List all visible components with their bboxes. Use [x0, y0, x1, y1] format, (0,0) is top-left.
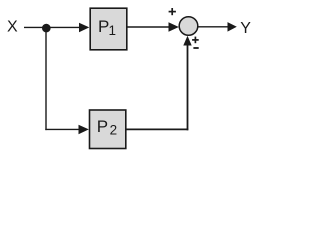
- wire up to summer: [187, 43, 189, 130]
- svg-text:2: 2: [110, 123, 118, 138]
- wire junction down: [45, 28, 47, 130]
- summing junction: [179, 17, 198, 36]
- block P1: [90, 8, 127, 50]
- block P2: [90, 110, 126, 149]
- wire P2 to right elbow: [126, 128, 188, 130]
- wire junction to P1: [46, 26, 80, 28]
- sign + top input: [169, 8, 176, 15]
- arrowhead into summer: [169, 22, 179, 32]
- wire elbow to P2: [45, 128, 80, 130]
- arrowhead into P2: [79, 125, 89, 135]
- sign + bottom input: [192, 37, 199, 44]
- svg-text:1: 1: [109, 23, 117, 38]
- svg-text:P: P: [97, 117, 108, 136]
- wire X to junction: [24, 26, 46, 28]
- arrowhead up into summer: [183, 36, 191, 46]
- arrowhead into Y: [228, 22, 237, 32]
- wire P1 to summer: [127, 26, 170, 28]
- svg-text:Y: Y: [240, 20, 251, 37]
- arrowhead into P1: [79, 23, 89, 33]
- svg-text:X: X: [7, 18, 18, 35]
- sign - bottom input: [193, 47, 198, 49]
- wire summer to Y: [198, 26, 229, 28]
- junction dot: [42, 24, 51, 33]
